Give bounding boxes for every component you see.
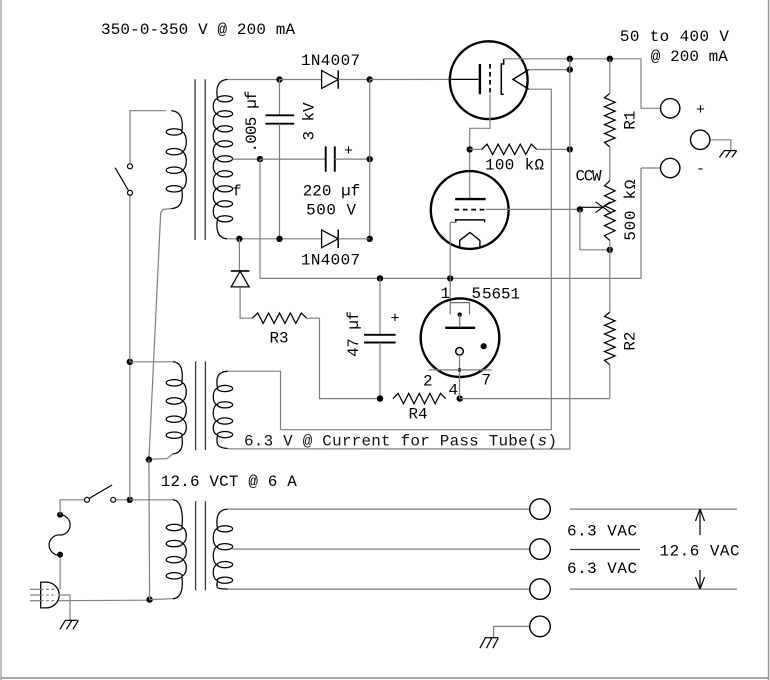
ground symbol at plug [60,620,79,629]
wire 100k to cathode-return rail [537,148,570,150]
label CCW [576,168,602,186]
svg-text:1N4007: 1N4007 [301,252,360,270]
svg-text:1N4007: 1N4007 [301,52,360,70]
regulator tube heater [460,233,480,248]
svg-text:220 µf: 220 µf [303,182,361,200]
drawing border left [0,0,2,680]
label 12.6 VAC [660,543,740,561]
resistor R2 [605,312,616,365]
label 500 V (C2) [306,202,356,220]
label R3 [270,330,289,348]
node heater top junction [567,66,573,72]
wire node to 100k [470,148,482,150]
svg-text:+: + [391,311,400,328]
node HT top at snubber [276,76,282,82]
wire 12.6V winding center tap [232,548,529,550]
ground symbol at heater terminal [480,638,499,649]
node heater-return at rail [567,56,573,62]
node D3 takeoff [236,236,242,242]
capacitor C2 220uF 500V [326,146,335,171]
5651 cathode ring [456,348,464,356]
regulator tube plate [455,198,485,200]
wire plug ground prong [59,595,71,620]
wire switch S2 to node [116,499,131,501]
pass tube plate lead [450,78,479,80]
node C2 plus at B+ rail [367,156,373,162]
wire R2 bottom to ground rail [609,365,611,399]
wire B+ vertical rail [369,80,371,239]
label 47 uf (C3) [345,311,363,357]
node snubber bottom [276,236,282,242]
potentiometer VR1 500k body [605,181,616,241]
svg-text:@ 200 mA: @ 200 mA [651,48,728,66]
transformer T1 primary winding [166,111,186,209]
wire snubber cap bottom lead [279,124,281,239]
5651 gas dot [481,343,487,349]
label pin 2 [423,373,433,391]
label + output [696,102,705,119]
label 6.3 V @ Current for Pass Tube(s) [244,433,557,451]
wire primary return to neutral [148,460,151,600]
node pot bottom [607,247,613,253]
svg-text:12.6 VCT @ 6 A: 12.6 VCT @ 6 A [161,473,297,491]
label R1 [621,111,639,130]
wire node to D3 [238,239,240,271]
node neutral junction [146,596,152,602]
diode D1 1N4007 [322,70,339,88]
transformer T3 primary winding [166,500,186,599]
divider between 6.3 VAC labels [570,549,640,551]
label pin 4 [449,382,459,400]
regulator tube V2 envelope [431,171,509,249]
wire S1 to T1 primary [130,111,166,164]
node mid tube cathode / 5651 anode [447,275,453,281]
wire common rail (CT down) [260,159,641,278]
svg-text:4: 4 [449,382,459,400]
pass tube grid (dashed) [489,64,491,94]
pass tube plate [479,64,481,94]
svg-text:R3: R3 [270,330,289,348]
wire 12.6V winding top lead [228,508,530,510]
resistor R4 [393,393,446,403]
terminal heater ground [530,616,551,637]
label 5651 [482,286,520,304]
wire 5651 pin1 lead [449,278,451,302]
wire rail to + terminal [641,59,661,109]
node 5651 pin4 at rail [457,395,463,401]
label 220 uf (C2) [303,182,361,200]
AC plug P1 [30,582,59,608]
label 100 kOhm [485,157,544,175]
5651 anode plate [445,327,475,329]
wire T3 primary top lead [130,499,173,501]
transformer T2 secondary winding (6.3V) [213,371,232,448]
label 350-0-350 V @ 200 mA [101,21,295,39]
svg-text:2: 2 [423,373,433,391]
label 3 kV (C1) [301,102,319,140]
terminal heater AC 2 [530,579,551,600]
wire neutral run [59,599,150,602]
drawing border right [768,0,770,680]
node switched-hot junction [127,497,133,503]
node B+ rail at D2 [367,236,373,242]
resistor R3 [252,313,306,323]
svg-text:6.3 VAC: 6.3 VAC [567,560,637,578]
wire 47uF top lead [379,278,381,334]
label 6.3 VAC lower [567,560,637,578]
dimension arrow up [696,509,705,535]
pass tube heater [513,70,529,90]
wire hot bus lower [129,362,131,500]
terminal heater AC CT [530,539,551,560]
wire B+ node to pass tube plate [370,78,450,80]
svg-text:6.3 V @ Current for Pass Tube(: 6.3 V @ Current for Pass Tube(s) [244,433,557,451]
label 12.6 VCT @ 6 A [161,473,297,491]
svg-text:50 to 400 V: 50 to 400 V [620,28,729,46]
svg-text:R1: R1 [621,111,639,130]
wire - terminal to common [641,167,660,169]
wire T1 center tap [232,158,260,160]
5651 anode bracket [450,303,469,328]
label pin 5 [472,285,482,303]
label R4 [409,406,428,424]
wire T3 primary bottom lead [150,598,173,601]
wire HT top rail to D1 [280,79,322,81]
wire D2 to B+ rail [338,238,370,240]
wire T2 primary top lead [130,361,173,363]
wire R3 to ground rail [307,318,380,398]
node 47uF top [377,275,383,281]
label + (C2) [344,143,353,160]
wire heater bottom to 6.3V supply [281,89,552,430]
drawing border bottom [1,677,769,679]
reference tube V3 5651 envelope [421,298,500,377]
ground symbol at output [719,151,736,158]
node pot wiper [577,206,583,212]
wire 6.3V winding top lead [228,371,281,430]
transformer T2 primary winding [166,362,186,454]
node hot bus at T2 [127,359,133,365]
transformer T3 core [196,501,206,590]
svg-text:6.3 VAC: 6.3 VAC [567,523,637,541]
capacitor C3 47uF [364,335,396,343]
node 100k right [567,146,573,152]
switch S2 (mains) [85,485,116,502]
resistor R1 [605,93,616,147]
5651 pins 2-7 bar [429,369,492,371]
svg-text:500 V: 500 V [306,202,356,220]
label - output [696,161,705,178]
node 47uF bottom [377,395,383,401]
label @ 200 mA [651,48,728,66]
svg-text:100 kΩ: 100 kΩ [485,157,544,175]
label 50 to 400 V [620,28,729,46]
wire D3 to R3 [240,287,252,318]
svg-text:1: 1 [441,285,451,303]
wire snubber cap top lead [279,80,281,116]
wire T1 secondary bottom lead [228,238,321,240]
label 6.3 VAC upper [567,523,637,541]
wire hot bus upper [129,195,131,362]
svg-text:12.6 VAC: 12.6 VAC [660,543,740,561]
label R2 [621,332,639,351]
svg-text:R4: R4 [409,406,428,424]
label + (C3) [391,311,400,328]
switch S1 (HV standby) [115,164,132,196]
wire 47uF bottom lead [379,343,381,399]
wire ground terminal lead [494,626,529,637]
wire 12.6 VAC span bottom [570,588,737,590]
resistor R5 100k [482,144,537,154]
svg-text:3 kV: 3 kV [301,102,319,140]
svg-text:+: + [344,143,353,160]
svg-text:350-0-350 V @ 200 mA: 350-0-350 V @ 200 mA [101,21,295,39]
transformer T2 core [196,361,206,450]
node 100k left / grid drive [467,146,473,152]
wire C2 to B+ rail [335,158,370,160]
terminal heater AC 1 [530,499,551,520]
svg-text:5: 5 [472,285,482,303]
wire regulator cathode down [450,222,456,278]
wire D1 to B+ node [338,79,370,81]
wire ground rail right [460,398,610,400]
node B+ rectifier output [367,76,373,82]
label 1N4007 (top) [301,52,360,70]
regulator tube cathode [456,220,485,223]
svg-text:f: f [233,184,242,201]
svg-text:+: + [696,102,705,119]
wire grid to pot wiper [486,208,580,210]
wire R1 top lead [609,59,611,94]
wire mid-tube plate up [469,149,471,199]
label pin 7 [482,372,492,390]
wire cathode rail top [504,58,641,60]
label 500 kOhm [622,179,640,240]
wire 12.6 VAC span top [570,508,737,510]
transformer T1 core [195,79,205,240]
wire plug hot to fuse [59,557,61,589]
fuse F1 [49,512,70,558]
svg-text:500 kΩ: 500 kΩ [622,179,640,240]
wire center tap to C2 [260,158,326,160]
label pin 1 [441,285,451,303]
svg-text:-: - [696,161,705,178]
pass tube cathode [501,59,503,94]
wire pass tube grid down [470,94,490,147]
diode D2 1N4007 [322,230,339,248]
wire pot to R2 [609,241,611,313]
terminal chassis [691,130,710,149]
wire heater top [529,69,570,71]
wire T1 secondary top lead / HT rail top [228,79,280,81]
node R1 top [607,56,613,62]
wire T1 primary return (slanted) [149,209,171,460]
svg-text:47 µf: 47 µf [345,311,363,357]
dimension arrow down [696,570,705,589]
svg-text:7: 7 [482,372,492,390]
pot wiper arrow [581,202,610,213]
wire fuse to switch S2 [60,500,85,515]
wire - terminal drop [640,168,642,278]
wire T2 primary bottom lead [151,454,173,459]
label .005 uf (C1) [243,91,261,153]
wire chassis terminal to ground [710,140,730,151]
stray f glyph [233,184,242,201]
label 1N4007 (bottom) [301,252,360,270]
terminal + output [661,99,680,118]
wire heater/cathode return vertical [228,59,570,449]
node T2 return joins T1 return [146,456,152,462]
capacitor C1 .005uF 3kV [266,115,295,123]
wire wiper to pot bottom [580,209,608,249]
terminal - output [661,158,680,177]
wire 12.6V winding bottom lead [228,588,530,590]
transformer T1 secondary winding [213,80,232,239]
5651 cathode lead [458,355,462,399]
svg-text:CCW: CCW [576,168,602,186]
transformer T3 secondary winding (12.6VCT) [213,509,232,589]
svg-text:R2: R2 [621,332,639,351]
wire R1 to pot [609,147,611,181]
diode D3 [231,271,250,287]
node center tap junction [257,156,263,162]
svg-text:.005 µf: .005 µf [243,91,261,153]
regulator tube grid (dashed) [454,209,485,211]
pass tube V1 envelope [450,41,528,119]
svg-text:5651: 5651 [482,286,520,304]
